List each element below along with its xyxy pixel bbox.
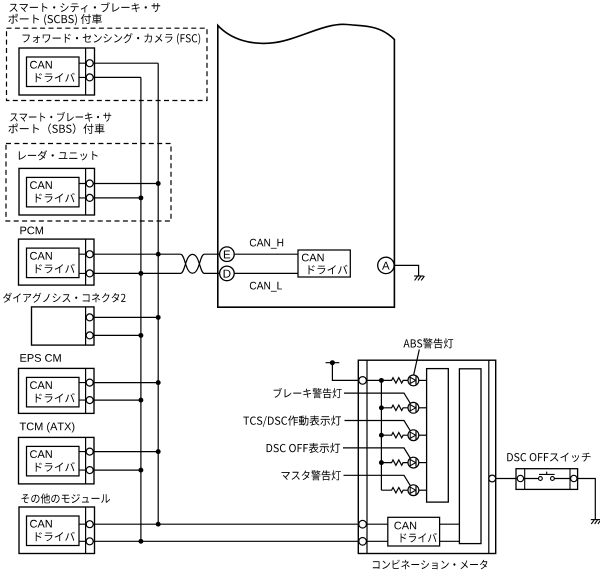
wire EPS CAN_H to bus [93,382,158,384]
module radar box [19,168,95,215]
meter internal block 2 [459,369,481,544]
CAN driver box (TCM) [27,446,80,476]
wire other CAN driver to pins [79,524,86,541]
pin diag CAN_H [86,314,93,321]
switch actuator bar [539,472,555,475]
bus CAN_H vertical [157,63,159,524]
power feed stub [326,363,359,381]
LED lamp ABS [408,375,419,386]
junction bus CAN_L / TCM [138,468,143,473]
junction power feed [330,360,335,365]
pin TCM CAN_L [86,467,93,474]
label master warning lamp [282,470,341,480]
meter internal block 1 (lamp driver) [427,369,449,503]
CAN driver box (other) [27,516,80,546]
pin switch right [571,475,577,481]
label TCS/DSC indicator [243,416,341,427]
pin switch left [517,475,523,481]
wire lamp brake to block [419,407,427,409]
wire other modules CAN_H to meter [93,523,359,525]
pin PCM CAN_L [86,270,93,277]
node D [220,266,235,281]
CAN driver box (FSC) [27,57,80,87]
LED lamp TCS/DSC [408,430,419,441]
switch strip left [524,469,526,490]
wire EPS CAN_L to bus [93,399,141,401]
wire FSC CAN driver to pins [79,63,86,77]
pin meter CAN_H [359,520,367,528]
pin radar CAN_L [86,194,93,201]
label TCM (ATX) [20,422,75,432]
diagnosis connector 2 box [32,307,95,345]
CAN driver box (EPS) [27,377,80,407]
junction bus CAN_L / PCM [138,271,143,276]
CAN driver box (meter) [388,517,440,546]
wire radar CAN_H to bus [93,183,158,185]
junction lamp feed row ABS [379,378,384,383]
pin diag CAN_L [86,332,93,339]
module EPS box [19,368,95,413]
module other box [19,507,95,554]
meter connector strip left [366,360,368,553]
LED lamp DSC OFF [408,457,419,468]
label FSC [22,33,200,44]
label CAN_L [250,282,282,292]
CAN driver box (PCM) [27,248,80,278]
wire lamp DSC OFF to block [419,462,427,464]
wire lamp ABS to block [419,379,427,381]
resistor lamp master [381,488,408,493]
wire diag CAN_L to bus [93,334,141,336]
LED lamp master [408,485,419,496]
pointer ABS lamp [414,350,420,376]
junction bus CAN_H end [156,522,161,527]
label ABS warning lamp [403,338,453,348]
wire TCM CAN_H to bus [93,451,158,453]
node E [220,247,235,262]
module radar connector strip [85,168,87,215]
wire switch to ground [578,479,596,520]
junction lamp feed row brake [379,405,384,410]
label SCBS note line2 [8,14,101,26]
switch strip right [569,469,571,490]
module FSC connector strip [85,48,87,95]
ground (DSC OFF switch) [591,520,600,524]
wire lamp master to block [419,489,427,491]
module other connector strip [85,507,87,554]
resistor lamp DSC OFF [381,460,408,465]
wire radar CAN_L to bus [93,197,141,199]
label PCM [20,227,43,235]
label SCBS note line1 [9,2,160,12]
node A [378,257,394,273]
wire PCM CAN driver to pins [79,254,86,273]
wire diag CAN_H to bus [93,316,158,318]
resistor lamp brake [381,405,408,410]
pin TCM CAN_H [86,448,93,455]
label SBS note line1 [10,112,111,122]
label brake warning lamp [274,388,342,398]
pin EPS CAN_L [86,397,93,404]
junction bus CAN_L / diag [138,333,143,338]
pointer DSC OFF lamp [343,448,411,459]
CAN driver box (big module) [298,250,350,277]
junction lamp feed row TCS/DSC [379,433,384,438]
junction bus CAN_L end [138,539,143,544]
pointer TCS/DSC lamp [345,421,411,432]
pointer master lamp [344,475,411,486]
junction bus CAN_H / radar [156,181,161,186]
label combination meter [373,560,488,570]
label EPS CM [20,354,60,362]
module TCM connector strip [85,437,87,484]
wire D to CAN driver [234,272,298,274]
label DSC OFF switch [507,453,590,462]
wire lamp TCS/DSC to block [419,434,427,436]
pin FSC CAN_L [86,74,93,81]
wire TCM CAN_L to bus [93,469,141,471]
wire E to CAN driver [234,253,298,255]
label DSC OFF indicator [267,443,341,453]
module PCM box [19,239,95,285]
resistor lamp TCS/DSC [381,433,408,438]
switch contact left [539,477,543,481]
junction bus CAN_L / radar [138,195,143,200]
label diagnosis connector 2 [3,293,126,303]
label CAN_H [250,239,283,249]
wire TCM CAN driver to pins [79,452,86,471]
junction bus CAN_H / EPS [156,380,161,385]
junction bus CAN_L / EPS [138,398,143,403]
label SBS note line2 [8,123,104,134]
label other modules [21,493,110,503]
wire CAN_L twisted pair PCM to D [93,254,220,273]
diagnosis connector strip [85,307,87,345]
pin EPS CAN_H [86,379,93,386]
pointer brake lamp [344,393,411,404]
module FSC box [19,48,95,95]
wire meter to DSC OFF switch [496,478,516,480]
pin other CAN_L [86,538,93,545]
pin meter lamp feed [359,377,367,385]
pin other CAN_H [86,521,93,528]
junction lamp feed row DSC OFF [379,460,384,465]
wire switch internal [524,478,571,480]
label radar unit [19,150,98,160]
bus CAN_L vertical [140,77,142,541]
junction bus CAN_H / PCM [156,252,161,257]
wire other modules CAN_L to meter [93,540,359,542]
combination meter box [358,360,495,553]
module PCM connector strip [85,239,87,285]
wire meter CAN driver to block2 [440,524,460,541]
CAN driver box (radar) [27,177,80,207]
junction bus CAN_H / diag [156,315,161,320]
wire CAN_H twisted pair PCM to E [93,254,220,273]
DSC OFF switch box [516,469,578,490]
wire meter pins to CAN driver [366,524,387,541]
wire meter lamp feed [366,380,381,490]
dashed box SCBS (FSC enclosure) [7,28,208,100]
wire A to ground [394,265,418,276]
switch contact right [551,477,555,481]
junction bus CAN_H / TCM [156,449,161,454]
pin meter DSC OFF [489,475,496,482]
pin meter CAN_L [359,538,367,546]
wire FSC CAN_L to bus corner [93,76,141,78]
wire radar CAN driver to pins [79,184,86,198]
big module box with torn wavy top [218,24,395,307]
module EPS connector strip [85,368,87,413]
meter connector strip right [488,360,490,553]
pin FSC CAN_H [86,60,93,67]
ground (big module) [414,276,424,280]
dashed box SBS (radar enclosure) [6,144,171,222]
wire FSC CAN_H to bus corner [93,62,158,64]
module TCM box [19,437,95,484]
pin radar CAN_H [86,180,93,187]
resistor lamp ABS [381,378,408,383]
wire EPS CAN driver to pins [79,383,86,401]
LED lamp brake [408,402,419,413]
pin PCM CAN_H [86,251,93,258]
